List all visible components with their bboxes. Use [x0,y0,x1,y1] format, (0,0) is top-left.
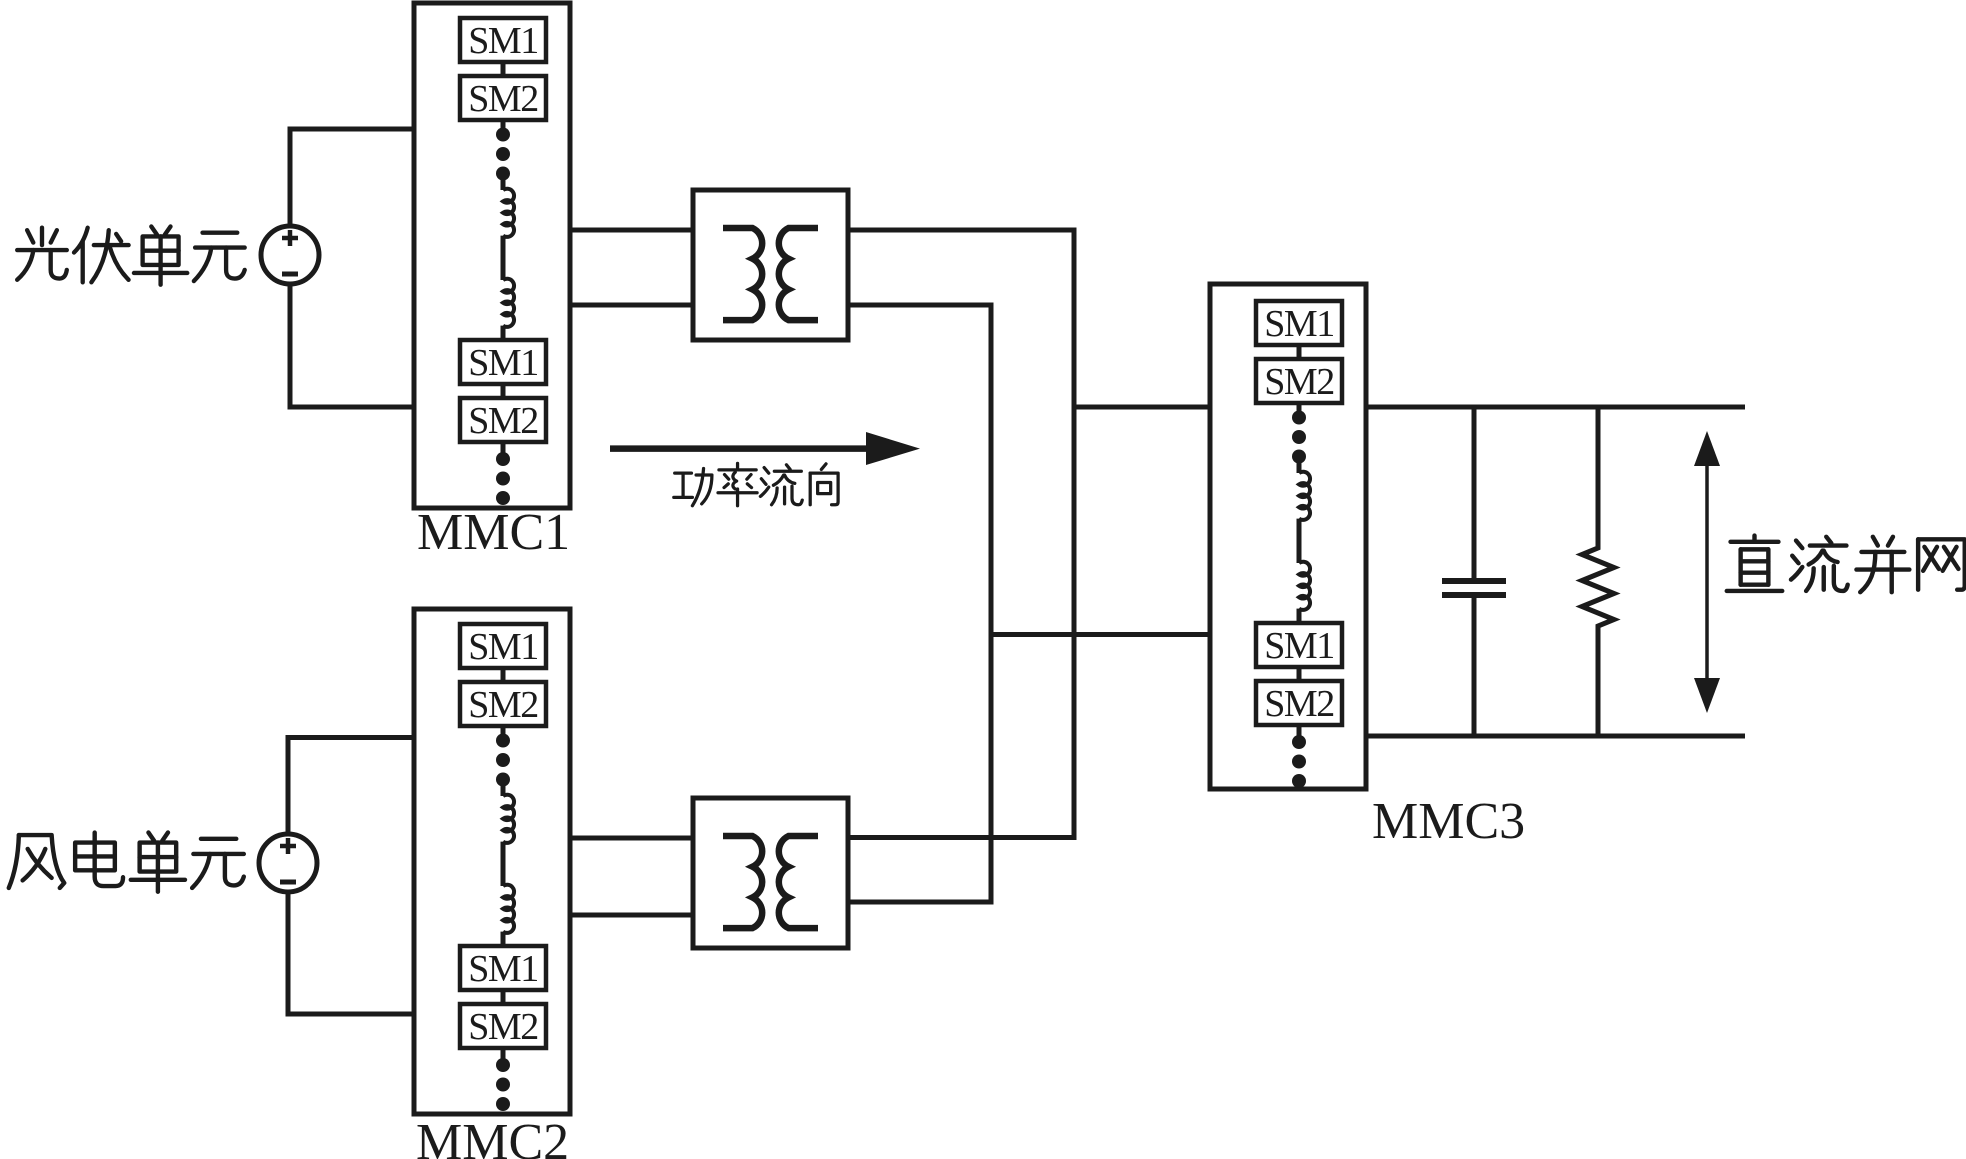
svg-text:MMC3: MMC3 [1372,793,1525,850]
svg-text:SM1: SM1 [1264,625,1333,667]
text label: 功率流向 (power flow direction) [674,463,838,505]
transformer T2 secondary winding [779,836,818,928]
wire SM2-dots upper (MMC2) [501,726,506,737]
capacitor C1 plates [1442,578,1506,584]
converter MMC3 outer box [1210,284,1366,789]
ellipsis dots (upper arm MMC3) [1292,411,1306,464]
text label: 光伏单元 (PV unit) [17,226,245,284]
ellipsis dots (upper arm MMC1) [496,128,510,181]
svg-text:SM2: SM2 [1264,361,1333,403]
wire: MMC2 upper output to T2 primary [570,836,693,841]
wire: MMC1 upper output to T1 primary [570,228,693,233]
svg-text:SM1: SM1 [468,626,537,668]
submodule SM2 upper (MMC2) [460,682,546,726]
converter MMC1 outer box [414,3,570,508]
wire between inductors (MMC1) [501,236,506,280]
arm inductor (lower MMC3) [1299,562,1310,610]
wire between inductors (MMC2) [501,842,506,886]
svg-text:MMC1: MMC1 [417,504,570,561]
svg-text:SM2: SM2 [468,684,537,726]
svg-text:SM2: SM2 [468,78,537,120]
wire inductor-SM1 lower (MMC2) [501,932,506,946]
submodule SM2 lower (MMC1) [460,398,546,442]
wire dots-inductor (MMC3) [1297,462,1302,473]
wire: T1 secondary lower to bus B [848,303,991,308]
wire: T2 secondary lower to bus B [848,900,991,905]
wire: T1 secondary upper to bus A [848,228,1074,233]
svg-text:SM2: SM2 [468,1006,537,1048]
submodule SM2 upper (MMC1) [460,76,546,120]
svg-text:MMC2: MMC2 [416,1114,569,1159]
arm inductor (lower MMC2) [503,885,514,933]
arm inductor (upper MMC2) [503,795,514,843]
voltage source V2 (wind unit) [259,834,317,892]
capacitor C1 leads [1472,407,1477,578]
svg-text:SM1: SM1 [1264,303,1333,345]
wire: V2 + terminal to MMC2 upper-left input [288,738,414,835]
wire: V1 - terminal to MMC1 lower-left input [290,284,414,407]
submodule SM1 upper (MMC2) [460,624,546,668]
wire SM1-SM2 lower (MMC1) [501,384,506,398]
wire: MMC2 lower output to T2 primary [570,913,693,918]
power flow arrow [610,432,920,465]
wire SM2-dots lower (MMC2) [501,1048,506,1059]
wire SM2-dots upper (MMC3) [1297,403,1302,414]
wire inductor-SM1 lower (MMC3) [1297,609,1302,623]
converter MMC2 outer box [414,609,570,1114]
wire: MMC3 upper output rail (DC+) [1366,405,1745,410]
voltage source V1 (PV unit) [261,226,319,284]
wire: V1 + terminal to MMC1 upper-left input [290,129,414,226]
submodule SM1 lower (MMC1) [460,340,546,384]
wire dots-inductor (MMC2) [501,785,506,796]
transformer T2 primary winding [723,836,762,928]
ellipsis dots (lower arm MMC1) [496,452,510,505]
submodule SM1 lower (MMC2) [460,946,546,990]
wire: V2 - terminal to MMC2 lower-left input [288,892,414,1014]
svg-text:SM2: SM2 [1264,683,1333,725]
wire SM1-SM2 upper (MMC1) [501,62,506,76]
wire dots-inductor (MMC1) [501,179,506,190]
wire: bus A to MMC3 upper-left input [1074,405,1210,410]
svg-text:SM1: SM1 [468,342,537,384]
wire SM2-dots lower (MMC3) [1297,725,1302,736]
transformer T1 secondary winding [779,228,818,320]
wire: bus A vertical (T1/T2 secondary upper) [1072,228,1077,841]
submodule SM1 upper (MMC1) [460,18,546,62]
wire SM1-SM2 upper (MMC2) [501,668,506,682]
wire: T2 secondary upper to bus A [848,835,1074,840]
text label: 风电单元 (wind unit) [9,833,244,892]
submodule SM2 lower (MMC3) [1256,681,1342,725]
wire: MMC3 lower output rail (DC-) [1366,734,1745,739]
submodule SM2 upper (MMC3) [1256,359,1342,403]
transformer T2 box [693,798,848,948]
arm inductor (upper MMC3) [1299,472,1310,520]
wire SM1-SM2 lower (MMC2) [501,990,506,1004]
text label: 直流并网 (DC grid connection) [1727,536,1965,593]
ellipsis dots (upper arm MMC2) [496,734,510,787]
transformer T1 primary winding [723,228,762,320]
submodule SM1 lower (MMC3) [1256,623,1342,667]
wire: MMC1 lower output to T1 primary [570,303,693,308]
submodule SM1 upper (MMC3) [1256,301,1342,345]
ellipsis dots (lower arm MMC3) [1292,735,1306,788]
submodule SM2 lower (MMC2) [460,1004,546,1048]
svg-text:SM1: SM1 [468,20,537,62]
wire: bus B to MMC3 lower-left input [991,632,1210,637]
wire SM1-SM2 lower (MMC3) [1297,667,1302,681]
resistor R1 (DC load) [1582,407,1614,736]
svg-text:SM2: SM2 [468,400,537,442]
wire SM1-SM2 upper (MMC3) [1297,345,1302,359]
wire SM2-dots lower (MMC1) [501,442,506,453]
wire between inductors (MMC3) [1297,519,1302,563]
transformer T1 box [693,190,848,340]
arm inductor (upper MMC1) [503,189,514,237]
arm inductor (lower MMC1) [503,279,514,327]
wire: bus B vertical (T1/T2 secondary lower) [989,303,994,905]
svg-text:SM1: SM1 [468,948,537,990]
wire SM2-dots upper (MMC1) [501,120,506,131]
wire inductor-SM1 lower (MMC1) [501,326,506,340]
ellipsis dots (lower arm MMC2) [496,1058,510,1111]
DC link voltage span double arrow [1694,431,1720,713]
